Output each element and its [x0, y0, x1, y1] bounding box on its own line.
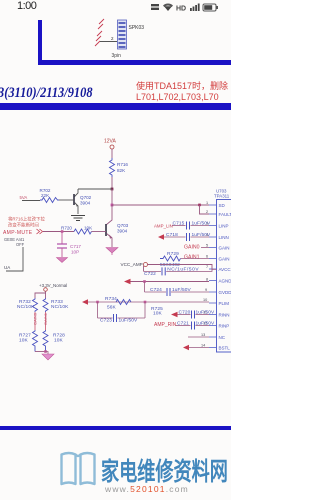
ground (triangle) divider [42, 352, 54, 361]
svg-text:GVDD: GVDD [219, 290, 232, 295]
svg-text:10K: 10K [84, 226, 93, 231]
svg-text:将R716上拉改下拉: 将R716上拉改下拉 [8, 216, 45, 223]
stub wire UA [4, 247, 23, 271]
svg-text:C718: C718 [166, 232, 178, 238]
wire down to C722 row [143, 266, 145, 272]
svg-text:AMP_RIN: AMP_RIN [154, 322, 177, 328]
wire NC pin13 [188, 336, 209, 338]
svg-text:NC/10K: NC/10K [17, 304, 35, 310]
svg-text:LINP: LINP [219, 224, 229, 229]
svg-text:10K: 10K [54, 338, 64, 344]
svg-text:BSTL: BSTL [219, 346, 231, 351]
svg-text:R729: R729 [167, 251, 179, 257]
node C717 branch [61, 230, 64, 233]
svg-text:C717: C717 [70, 244, 81, 249]
svg-text:NC/10K: NC/10K [51, 304, 69, 310]
node SD/FAULT tie [198, 204, 201, 207]
svg-text:Q703: Q703 [117, 223, 129, 228]
resistor R720 [61, 226, 93, 235]
wire PLIM row [88, 301, 209, 303]
wire AGND node down to C724 [144, 282, 146, 293]
svg-text:C721: C721 [177, 321, 189, 327]
svg-text:VCC_AMP: VCC_AMP [121, 262, 143, 267]
battery [203, 4, 216, 11]
ground (triangle) under C717 [57, 258, 68, 263]
header navy rule [0, 103, 231, 110]
svg-text:1: 1 [206, 201, 208, 205]
wire node to Q702 collector [78, 188, 112, 190]
svg-text:R716: R716 [117, 162, 128, 167]
wire R720 to Q703 base [92, 231, 107, 233]
svg-text:R720: R720 [61, 226, 72, 231]
svg-text:GAIN1: GAIN1 [184, 255, 200, 261]
svg-text:C722: C722 [144, 271, 156, 277]
wire AGND row [131, 280, 210, 283]
svg-text:1uF/50V: 1uF/50V [196, 321, 216, 327]
resistor R725 labels [151, 306, 163, 317]
svg-text:GAIN0: GAIN0 [184, 245, 200, 251]
svg-text:13: 13 [201, 333, 205, 337]
svg-text:3904: 3904 [117, 229, 128, 234]
svg-text:AVCC: AVCC [219, 267, 232, 272]
svg-text:82K: 82K [117, 168, 126, 173]
svg-text:5: 5 [206, 244, 208, 248]
wire node down to pin1 row [111, 189, 113, 205]
capacitor C724 [145, 287, 210, 296]
resistor R728 [43, 330, 65, 352]
svg-text:AMP_LIN: AMP_LIN [154, 224, 173, 229]
capacitor C721 [176, 321, 215, 330]
svg-text:10K: 10K [153, 311, 163, 317]
input arrow PLIM row [82, 299, 88, 305]
net label GAIN1 vertical [43, 312, 48, 330]
svg-text:RINN: RINN [219, 313, 230, 318]
input arrow AGND row [124, 279, 131, 285]
svg-text:1uF/50V: 1uF/50V [119, 318, 139, 324]
bottom navy rule [0, 426, 231, 431]
wire divider bottom [35, 350, 47, 353]
svg-text:12VA: 12VA [104, 139, 117, 145]
svg-text:TPA311: TPA311 [214, 194, 230, 199]
net label GAIN0 vertical [33, 312, 38, 330]
capacitor C715 [172, 221, 211, 230]
svg-text:10: 10 [203, 298, 207, 302]
svg-text:5VA: 5VA [20, 195, 28, 200]
transistor Q703 [106, 205, 129, 247]
svg-text:56K: 56K [107, 305, 117, 311]
status bar clock [17, 0, 36, 12]
ground (earth) under Q702 [71, 216, 85, 221]
node collector junction [111, 188, 114, 191]
wifi icon [164, 6, 172, 11]
svg-text:NC: NC [219, 335, 226, 340]
wire R702 to base [59, 199, 74, 201]
node pin1 branch [111, 204, 114, 207]
header red note [136, 81, 228, 103]
svg-text:OFF: OFF [16, 242, 25, 247]
svg-text:C715: C715 [173, 221, 185, 227]
wire AMP-MUTE to R720 [43, 231, 74, 233]
svg-text:14: 14 [201, 344, 205, 348]
svg-text:AGND: AGND [219, 279, 232, 284]
net label GAIN1 [181, 255, 210, 261]
svg-text:6: 6 [206, 255, 208, 259]
net label 5VA [20, 195, 41, 201]
red annotation note [8, 216, 45, 229]
svg-text:FAULT: FAULT [219, 212, 232, 217]
capacitor C717 [57, 232, 81, 258]
svg-text:GAIN: GAIN [219, 246, 230, 251]
svg-text:1uF/50V: 1uF/50V [192, 232, 212, 238]
svg-text:2: 2 [206, 210, 208, 214]
top schematic sheet frame (L-shape navy) [38, 20, 42, 64]
svg-text:3904: 3904 [80, 201, 91, 206]
wire tie down to pin2 [200, 205, 210, 214]
svg-text:AMP-MUTE: AMP-MUTE [3, 230, 33, 236]
svg-text:LINN: LINN [219, 235, 229, 240]
svg-text:Q702: Q702 [80, 195, 92, 200]
resistor R734 [105, 296, 131, 311]
svg-text:SD: SD [219, 203, 226, 208]
wire to connector [100, 36, 117, 42]
IC pin names [219, 203, 233, 351]
resistor R729 [160, 251, 181, 268]
node PLIM left / wire to C723 [96, 301, 99, 318]
input arrow RINN [171, 312, 178, 318]
signal bars [190, 8, 192, 11]
IC pin stubs and numbers [209, 205, 217, 348]
watermark logo book [58, 450, 98, 488]
svg-text:GAIN: GAIN [219, 257, 230, 262]
connector SPK03 [118, 20, 127, 49]
volte badge [151, 4, 159, 6]
ground (triangle) under Q703 [106, 248, 118, 256]
capacitor C722 [144, 267, 213, 277]
svg-text:NC/1uF/50V: NC/1uF/50V [167, 267, 199, 273]
hatch marks group2 [95, 31, 102, 46]
svg-text:RINP: RINP [219, 324, 230, 329]
watermark url [105, 484, 189, 494]
power 12VA [104, 139, 117, 159]
input arrow BSTL pin14 [183, 345, 209, 351]
svg-text:C724: C724 [150, 287, 162, 293]
svg-text:10K: 10K [19, 338, 29, 344]
svg-text:1uF/50V: 1uF/50V [192, 221, 212, 227]
svg-text:C720: C720 [179, 310, 191, 316]
wire to pin1 SD [112, 204, 209, 206]
capacitor C718 [164, 232, 211, 241]
capacitor C723 [98, 314, 146, 324]
resistor R716 [110, 158, 129, 177]
svg-text:UA: UA [4, 265, 10, 270]
net label GAIN0 [184, 245, 209, 251]
svg-text:1uF/50V: 1uF/50V [196, 310, 216, 316]
svg-text:1uF/50V: 1uF/50V [172, 287, 192, 293]
top fragment schematic (speaker connector) [0, 0, 231, 70]
transistor Q702 [74, 189, 92, 214]
node PLIM right / wire to C723 [144, 301, 147, 318]
net label AMP-MUTE [3, 229, 43, 236]
resistor R732 [17, 298, 38, 312]
IC U703 TPA3110 [214, 189, 231, 353]
svg-text:10P: 10P [71, 250, 79, 255]
svg-text:9: 9 [205, 288, 207, 292]
input arrow LINN [158, 234, 164, 240]
resistor R733 [43, 298, 69, 312]
status bar icons [150, 2, 222, 13]
svg-text:7: 7 [206, 265, 208, 269]
svg-text:+3.3V_Normal: +3.3V_Normal [39, 283, 67, 288]
header title [0, 84, 93, 101]
svg-text:8: 8 [206, 278, 208, 282]
resistor R727 [19, 330, 38, 352]
hatch marks group1 [98, 19, 104, 29]
svg-text:R734: R734 [105, 296, 117, 302]
resistor R702 [40, 188, 60, 203]
svg-text:22K: 22K [41, 193, 50, 198]
svg-text:C723: C723 [100, 318, 112, 324]
power +3.3V_Normal [35, 283, 67, 298]
wire R716 to node [111, 177, 113, 189]
svg-text:改变不能断时间: 改变不能断时间 [8, 222, 39, 229]
power VCC_AMP [121, 262, 217, 269]
annotation GE0E [4, 237, 25, 247]
svg-text:PLIM: PLIM [219, 301, 230, 306]
watermark text [101, 452, 228, 488]
capacitor C720 [178, 310, 216, 319]
main schematic [0, 0, 231, 500]
